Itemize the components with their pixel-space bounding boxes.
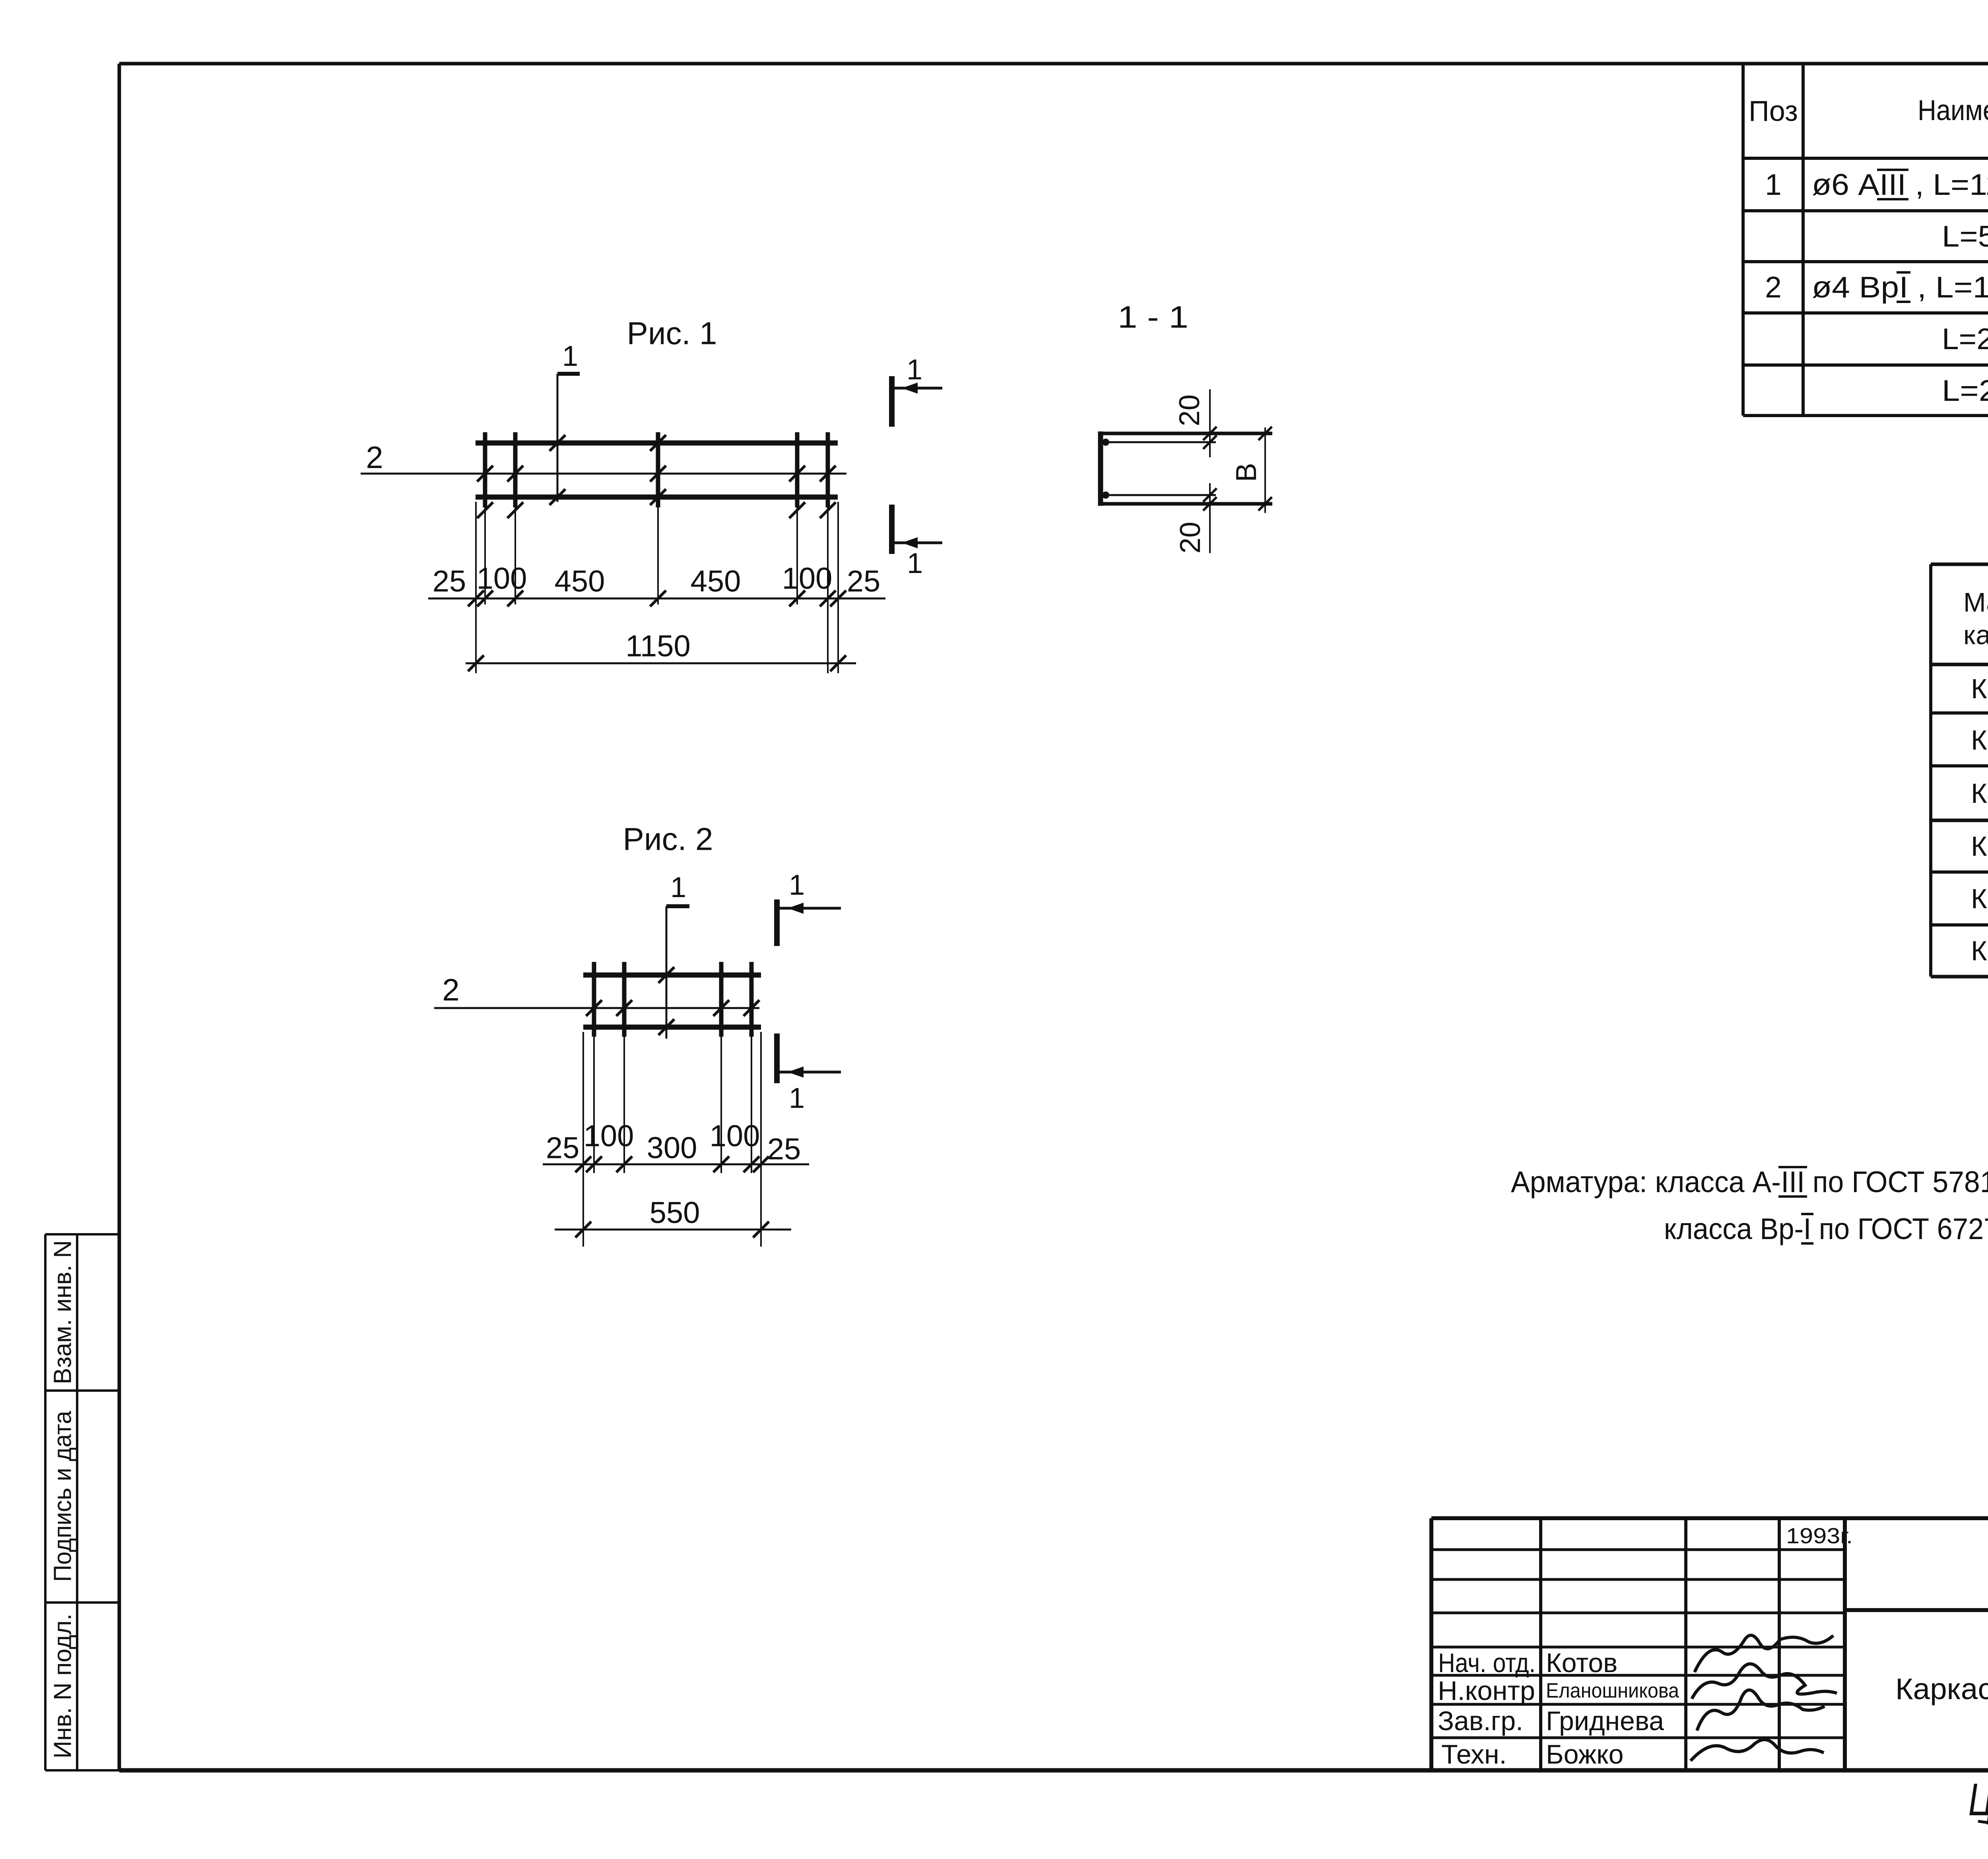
section 1-1 cross bar bbox=[1098, 431, 1103, 506]
fig2 section mark 1 upper right bbox=[777, 869, 841, 946]
section 1-1 longitudinal bar dots bbox=[1102, 439, 1216, 499]
table 2 data bbox=[1971, 673, 1988, 966]
svg-text:300: 300 bbox=[647, 1131, 697, 1165]
section 1-1 bottom edge bbox=[1098, 502, 1272, 506]
fig1 dimension line 1150 bbox=[466, 629, 856, 672]
svg-text:L=220 ; 0,02 кг: L=220 ; 0,02 кг bbox=[1942, 322, 1988, 355]
fig1 cross bars (item 2) bbox=[485, 432, 828, 507]
svg-text:Рис. 2: Рис. 2 bbox=[623, 822, 713, 857]
svg-text:, L=1150 ; 0,26 кг: , L=1150 ; 0,26 кг bbox=[1906, 168, 1988, 201]
left margin stamp boxes bbox=[45, 1234, 121, 1770]
svg-text:B: B bbox=[1231, 463, 1262, 482]
svg-text:Кр 50: Кр 50 bbox=[1971, 935, 1988, 966]
table 1 row 3 bbox=[1765, 270, 1988, 304]
svg-text:1: 1 bbox=[789, 1082, 805, 1114]
svg-text:Божко: Божко bbox=[1546, 1739, 1624, 1770]
svg-text:Кр46: Кр46 bbox=[1971, 725, 1988, 756]
svg-text:1: 1 bbox=[562, 340, 578, 372]
svg-text:по ГОСТ 5781-82: по ГОСТ 5781-82 bbox=[1805, 1165, 1988, 1199]
svg-text:1: 1 bbox=[1765, 168, 1782, 201]
svg-text:каркаса: каркаса bbox=[1963, 620, 1988, 650]
note Арматура line 1 bbox=[1511, 1165, 1988, 1204]
fig1 weld ticks bbox=[477, 435, 836, 518]
handwritten Ц00133-03 bbox=[1969, 1774, 1988, 1825]
svg-text:I: I bbox=[1804, 1212, 1811, 1245]
svg-text:Марка: Марка bbox=[1963, 587, 1988, 618]
svg-text:Рис. 1: Рис. 1 bbox=[627, 316, 717, 351]
svg-text:Зав.гр.: Зав.гр. bbox=[1438, 1706, 1523, 1736]
note Арматура line 2 bbox=[1664, 1212, 1988, 1251]
svg-text:2: 2 bbox=[1765, 270, 1782, 304]
table 1 header text bbox=[1749, 72, 1988, 152]
fig1 leader line item 2 bbox=[361, 440, 846, 475]
svg-text:класса Вр-: класса Вр- bbox=[1664, 1212, 1804, 1245]
table 2: Марка каркаса / Рис. / В,мм / Масса bbox=[1931, 564, 1988, 977]
fig2 dimension line 550 bbox=[555, 1196, 791, 1238]
signature squiggle Котов bbox=[1695, 1635, 1833, 1672]
svg-text:Взам. инв. N: Взам. инв. N bbox=[49, 1240, 77, 1384]
svg-text:Инв. N подл.: Инв. N подл. bbox=[49, 1614, 77, 1758]
fig1 section mark 1 lower right bbox=[892, 505, 942, 579]
svg-text:Кр 45: Кр 45 bbox=[1971, 673, 1988, 704]
svg-text:2: 2 bbox=[442, 972, 459, 1007]
svg-text:Кр48: Кр48 bbox=[1971, 831, 1988, 862]
table 1 row 5 bbox=[1942, 374, 1988, 407]
svg-text:1 - 1: 1 - 1 bbox=[1118, 299, 1188, 334]
section 1-1 dim 20 bottom bbox=[1175, 483, 1217, 554]
label Взам. инв. N bbox=[49, 1240, 77, 1384]
svg-text:Ц00133·03: Ц00133·03 bbox=[1969, 1774, 1988, 1825]
svg-text:20: 20 bbox=[1174, 394, 1206, 426]
signature squiggle Еланошникова bbox=[1692, 1664, 1837, 1699]
Рис. 2 title bbox=[623, 822, 713, 857]
title block signature rows bbox=[1438, 1648, 1679, 1770]
svg-text:Кр49: Кр49 bbox=[1971, 883, 1988, 914]
fig2 weld ticks bbox=[586, 967, 759, 1035]
svg-text:I: I bbox=[1899, 270, 1908, 304]
svg-text:1: 1 bbox=[907, 354, 922, 386]
svg-text:450: 450 bbox=[691, 565, 741, 598]
svg-text:Нач. отд.: Нач. отд. bbox=[1438, 1648, 1536, 1678]
svg-text:25: 25 bbox=[433, 565, 466, 598]
svg-text:Каркас Кр 45 ... Кр 50: Каркас Кр 45 ... Кр 50 bbox=[1895, 1672, 1988, 1706]
fig1 longitudinal bar top (item 1) bbox=[476, 441, 838, 446]
svg-text:100: 100 bbox=[782, 562, 833, 596]
signature squiggle Гриднева bbox=[1697, 1690, 1825, 1731]
title block Каркас bbox=[1895, 1672, 1988, 1706]
svg-text:1: 1 bbox=[907, 548, 923, 579]
svg-text:по ГОСТ 6727-80: по ГОСТ 6727-80 bbox=[1811, 1212, 1988, 1245]
fig1 extension lines bbox=[476, 502, 838, 673]
fig2 section mark 1 lower right bbox=[777, 1033, 841, 1114]
table 1 row 1 bbox=[1765, 168, 1988, 201]
svg-text:Котов: Котов bbox=[1546, 1648, 1617, 1678]
svg-text:550: 550 bbox=[650, 1196, 700, 1230]
svg-text:Наименование: Наименование bbox=[1918, 95, 1988, 126]
section 1-1 title bbox=[1118, 299, 1188, 334]
signature squiggle Божко bbox=[1691, 1740, 1824, 1761]
svg-text:100: 100 bbox=[584, 1119, 634, 1153]
svg-text:L=270 ; 0,025 кг: L=270 ; 0,025 кг bbox=[1942, 374, 1988, 407]
section 1-1 top edge bbox=[1098, 432, 1272, 435]
svg-text:450: 450 bbox=[555, 565, 605, 598]
svg-text:100: 100 bbox=[710, 1119, 760, 1153]
svg-text:25: 25 bbox=[767, 1132, 801, 1166]
svg-text:1993г.: 1993г. bbox=[1786, 1523, 1853, 1548]
fig2 longitudinal bar top bbox=[583, 973, 761, 978]
svg-text:ø4 Вр: ø4 Вр bbox=[1812, 270, 1899, 304]
svg-text:25: 25 bbox=[847, 565, 881, 598]
label Инв. N подл. bbox=[49, 1614, 77, 1758]
svg-text:Еланошникова: Еланошникова bbox=[1546, 1679, 1679, 1702]
svg-text:100: 100 bbox=[477, 562, 527, 596]
section 1-1 dim 20 top bbox=[1174, 389, 1217, 457]
Рис. 1 title bbox=[627, 316, 717, 351]
svg-text:20: 20 bbox=[1175, 522, 1206, 554]
svg-text:Техн.: Техн. bbox=[1441, 1739, 1507, 1770]
svg-text:Гриднева: Гриднева bbox=[1546, 1706, 1664, 1736]
svg-text:25: 25 bbox=[546, 1131, 580, 1165]
svg-text:Н.контр: Н.контр bbox=[1438, 1676, 1535, 1706]
svg-text:Арматура: класса А-: Арматура: класса А- bbox=[1511, 1165, 1781, 1199]
table 1: Поз / Наименование / Кол. на Кр bbox=[1743, 64, 1988, 416]
fig1 dimension line 25/100/450/450/100/25 bbox=[428, 562, 885, 607]
svg-text:2: 2 bbox=[366, 440, 383, 475]
table 1 row 2 bbox=[1942, 220, 1988, 253]
svg-text:1150: 1150 bbox=[625, 629, 690, 663]
fig2 longitudinal bar bottom bbox=[583, 1025, 761, 1030]
fig1 section line 1 with flag bbox=[557, 340, 580, 502]
fig1 section mark 1 upper right bbox=[892, 354, 942, 427]
svg-text:, L=170 ; 0,016 кг: , L=170 ; 0,016 кг bbox=[1908, 270, 1988, 304]
table 1 row 4 bbox=[1942, 322, 1988, 355]
svg-text:Кр47: Кр47 bbox=[1971, 778, 1988, 809]
label Подпись и дата bbox=[49, 1411, 77, 1582]
fig2 cross bars bbox=[594, 962, 751, 1037]
svg-text:1: 1 bbox=[789, 869, 805, 901]
title block 1993г bbox=[1786, 1523, 1853, 1548]
section 1-1 dim B bbox=[1231, 427, 1272, 513]
fig2 extension lines bbox=[583, 1032, 761, 1247]
svg-text:1: 1 bbox=[670, 872, 686, 903]
svg-text:L=550 ; 0,12 кг: L=550 ; 0,12 кг bbox=[1942, 220, 1988, 253]
fig1 longitudinal bar bottom (item 1) bbox=[476, 495, 838, 500]
svg-text:ø6 А: ø6 А bbox=[1812, 168, 1879, 201]
svg-text:III: III bbox=[1781, 1165, 1805, 1199]
svg-text:Подпись и дата: Подпись и дата bbox=[49, 1411, 77, 1582]
svg-text:III: III bbox=[1879, 168, 1906, 201]
fig2 dimension line 25/100/300/100/25 bbox=[543, 1119, 809, 1173]
svg-text:Поз: Поз bbox=[1749, 95, 1798, 127]
table 2 header text bbox=[1963, 572, 1988, 666]
fig2 leader line item 2 bbox=[434, 972, 759, 1008]
title block grid bbox=[1431, 1518, 1988, 1770]
fig2 section line 1 with flag bbox=[666, 872, 689, 1039]
